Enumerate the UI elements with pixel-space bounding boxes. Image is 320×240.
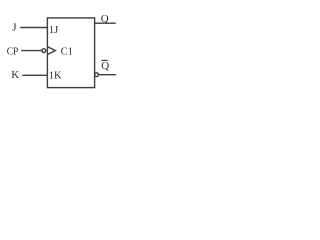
svg-text:CP: CP xyxy=(7,46,18,58)
svg-text:K: K xyxy=(11,69,19,81)
svg-text:1J: 1J xyxy=(49,25,58,36)
svg-text:1K: 1K xyxy=(49,70,62,81)
svg-text:Q: Q xyxy=(101,13,109,25)
svg-text:Q: Q xyxy=(101,60,109,72)
svg-text:C1: C1 xyxy=(61,47,73,58)
svg-text:J: J xyxy=(12,21,17,33)
